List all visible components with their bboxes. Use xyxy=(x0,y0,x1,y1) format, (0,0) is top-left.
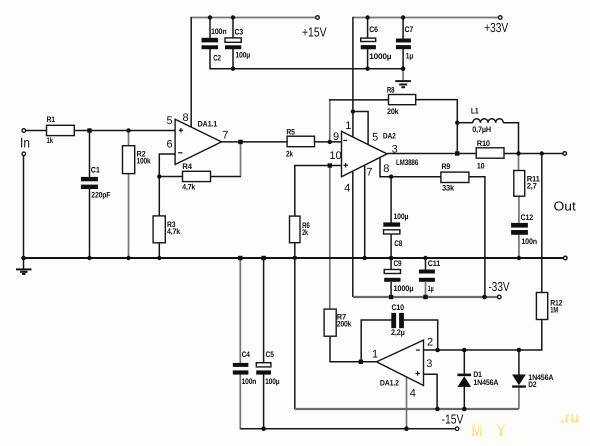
label DA2 xyxy=(383,131,419,167)
wire C10 left branch xyxy=(361,320,391,362)
wire DA2 pins 1-5 link xyxy=(353,112,368,145)
wire R8 left horizontal xyxy=(329,99,388,101)
svg-text:3: 3 xyxy=(426,358,432,370)
wire R12 bottom to diode node xyxy=(519,320,542,351)
node C3 top xyxy=(231,15,235,19)
svg-text:+33V: +33V xyxy=(484,20,508,35)
wire R3 bottom stub xyxy=(158,243,160,258)
svg-text:220pF: 220pF xyxy=(91,190,110,199)
label R11 xyxy=(527,175,541,191)
capacitor C1 xyxy=(81,177,98,189)
svg-text:.ru: .ru xyxy=(560,408,579,426)
wire R2 bottom to ground bus (grey) xyxy=(128,174,130,259)
pin numbers DA1.1 xyxy=(167,112,229,151)
svg-text:C10: C10 xyxy=(392,303,405,312)
wire C5 column upper xyxy=(263,258,265,363)
svg-text:R9: R9 xyxy=(442,162,451,171)
label D1 xyxy=(473,370,498,387)
label R10 xyxy=(477,139,491,171)
svg-text:M: M xyxy=(471,420,482,440)
svg-text:1µ: 1µ xyxy=(428,284,434,293)
capacitor C4 xyxy=(233,363,249,375)
resistor R5 xyxy=(287,136,314,147)
svg-text:C5: C5 xyxy=(266,350,275,359)
node D2 top xyxy=(517,348,522,353)
node -33V R9 xyxy=(482,295,487,300)
svg-text:10: 10 xyxy=(329,150,341,162)
svg-text:2k: 2k xyxy=(302,228,308,237)
wire C3 bottom stub xyxy=(232,49,234,69)
svg-text:C6: C6 xyxy=(369,25,378,34)
wire -33V rail (grey) xyxy=(353,296,497,298)
wire DA2 +input to R7 column (grey) xyxy=(329,166,331,310)
svg-text:8: 8 xyxy=(183,112,189,124)
wire C9 bottom stub xyxy=(390,282,392,297)
svg-text:100n: 100n xyxy=(211,27,227,36)
wire R4 feedback line xyxy=(159,176,241,178)
svg-text:DA1.1: DA1.1 xyxy=(198,120,218,129)
resistor R11 xyxy=(514,171,525,197)
capacitor C11 xyxy=(419,270,435,282)
diode D1 xyxy=(457,374,471,387)
label R3 xyxy=(167,220,181,236)
wire C6 top stub xyxy=(367,18,369,39)
wire -15V bottom line to terminal xyxy=(240,428,454,430)
svg-text:5: 5 xyxy=(167,115,173,127)
label R8 xyxy=(387,86,399,116)
wire DA2 pin8 stub xyxy=(380,158,391,177)
node DA2 supply pins xyxy=(351,109,355,113)
label C5 xyxy=(265,350,280,386)
label DA1.2 xyxy=(380,378,400,387)
wire R3 column xyxy=(158,177,160,216)
wire In lower terminal to ground bus xyxy=(23,156,25,258)
wire L1 branch line xyxy=(457,122,473,124)
svg-text:L1: L1 xyxy=(471,107,479,116)
wire L1 right corner down to output xyxy=(503,123,518,154)
svg-text:R8: R8 xyxy=(387,86,395,95)
svg-text:0,7µH: 0,7µH xyxy=(472,125,491,134)
label R12 xyxy=(550,299,563,315)
svg-text:Y: Y xyxy=(495,420,506,440)
label C9 xyxy=(394,259,414,293)
node C6 bottom xyxy=(365,67,369,71)
ground bus xyxy=(24,257,564,259)
label C6 xyxy=(369,25,392,61)
wire -15V bus (grey) xyxy=(295,408,519,410)
node DA2 pin8 xyxy=(389,175,393,179)
svg-text:LM3886: LM3886 xyxy=(396,158,419,167)
svg-text:8: 8 xyxy=(383,163,389,175)
svg-text:100k: 100k xyxy=(137,157,152,166)
label R4 xyxy=(182,162,195,192)
wire R8 feedback column upper (grey) xyxy=(329,99,331,142)
svg-text:C4: C4 xyxy=(242,350,251,359)
svg-text:7: 7 xyxy=(366,166,372,178)
wire R11 C12 column top xyxy=(518,154,520,172)
capacitor C7 xyxy=(396,39,411,50)
wire DA2 output line to Out terminal xyxy=(387,153,563,155)
svg-text:C8: C8 xyxy=(394,239,403,248)
node -15V bus D1 xyxy=(462,407,467,412)
label +33V xyxy=(484,20,508,35)
wire D2 column lower (grey) xyxy=(518,388,520,409)
terminal Out live xyxy=(563,152,567,156)
svg-text:C3: C3 xyxy=(235,28,244,37)
svg-text:-15V: -15V xyxy=(442,412,464,427)
svg-text:+15V: +15V xyxy=(302,25,327,40)
label R1 xyxy=(47,115,56,145)
label C7 xyxy=(405,25,414,60)
wire C11 bottom stub (grey) xyxy=(425,282,427,297)
label R6 xyxy=(302,221,310,237)
label In xyxy=(20,135,30,151)
op-amp U2 DA2 LM3886 xyxy=(342,131,388,176)
wire C2 top stub xyxy=(209,18,211,41)
label +15V xyxy=(302,25,327,40)
wire R12 column upper xyxy=(541,154,543,293)
node ground R2 xyxy=(126,256,130,260)
svg-text:9: 9 xyxy=(333,131,339,143)
wire C1 column upper xyxy=(89,131,91,178)
svg-text:20k: 20k xyxy=(387,107,399,116)
wire +33V supply column to DA2 pins 1/5 xyxy=(352,17,354,138)
wire C9 top stub xyxy=(390,258,392,270)
wire C11 top stub xyxy=(425,258,427,270)
resistor R2 xyxy=(123,146,135,174)
svg-text:100n: 100n xyxy=(521,237,537,246)
svg-text:100n: 100n xyxy=(242,377,257,386)
op-amp U3 DA1.2 xyxy=(377,340,424,385)
svg-text:1000µ: 1000µ xyxy=(394,284,414,293)
wire +33V rail xyxy=(353,17,498,19)
capacitor C10 (horizontal) xyxy=(391,313,404,328)
node C7 top xyxy=(401,15,405,19)
wire DA1.2 pin4 column (grey) xyxy=(406,377,408,429)
node DA2 pin9 input xyxy=(328,140,332,144)
node bottom DA1.2 pin4 xyxy=(404,426,409,431)
wire C7 top stub xyxy=(402,18,404,39)
svg-text:C2: C2 xyxy=(213,54,221,63)
node ground C8-C9 xyxy=(389,256,394,261)
node ground C5 xyxy=(261,256,265,260)
wire C4 column upper (grey) xyxy=(239,258,241,363)
svg-text:-33V: -33V xyxy=(489,279,510,294)
svg-text:DA2: DA2 xyxy=(383,131,396,140)
label C8 xyxy=(394,212,409,248)
svg-text:1: 1 xyxy=(372,348,378,360)
terminal +15V xyxy=(316,16,320,20)
wire DA1.1 inverting input xyxy=(159,154,175,177)
resistor R12 xyxy=(536,293,547,320)
label R5 xyxy=(286,128,295,159)
node ground C11 xyxy=(423,256,427,260)
wire R9 right to -33V rail xyxy=(469,177,485,297)
svg-text:2k: 2k xyxy=(286,150,294,159)
node DA2 pin10 input xyxy=(328,163,332,167)
resistor R7 xyxy=(324,309,336,336)
wire DA1.1 output feedback drop (grey) xyxy=(240,142,242,176)
svg-text:2: 2 xyxy=(427,337,433,349)
label Out xyxy=(554,198,577,213)
svg-text:C11: C11 xyxy=(428,259,441,268)
node ground R6 crossing xyxy=(293,256,297,259)
node output R11 xyxy=(516,151,520,155)
svg-text:1M: 1M xyxy=(550,306,558,315)
wire C12 bottom to ground bus xyxy=(518,235,520,259)
node -33V C9 xyxy=(389,295,393,299)
svg-text:100µ: 100µ xyxy=(394,212,409,221)
ground (input) xyxy=(16,258,32,274)
svg-text:C1: C1 xyxy=(91,165,101,174)
wire C8 bottom to ground bus xyxy=(390,234,392,258)
node C3 bottom xyxy=(231,67,235,71)
label C10 xyxy=(391,303,405,337)
node C7 bottom xyxy=(401,66,406,71)
op-amp U1 DA1.1 xyxy=(175,119,221,164)
wire D1 column upper xyxy=(463,350,465,374)
wire R6 bottom through ground bus to -15V bus xyxy=(294,243,296,409)
terminal +33V xyxy=(498,16,502,20)
node R4 left xyxy=(157,174,161,178)
label C4 xyxy=(242,350,257,386)
node input R2 xyxy=(126,128,130,132)
wire DA2 non-inverting input line xyxy=(295,166,342,217)
wire DA2 pin4 column to -33V rail xyxy=(352,171,354,297)
svg-text:C7: C7 xyxy=(405,25,414,34)
wire C4 column lower (grey) xyxy=(240,374,241,429)
watermark .ru xyxy=(560,408,579,426)
svg-text:C9: C9 xyxy=(394,259,403,268)
wire DA1.2 pin3 to -15V bus xyxy=(424,374,438,409)
capacitor C5 (polarized) xyxy=(256,363,271,375)
inductor L1 xyxy=(473,119,503,123)
resistor R6 xyxy=(290,216,301,243)
svg-text:7: 7 xyxy=(222,129,228,141)
node DA1.1 output xyxy=(238,140,242,144)
wire C6 bottom stub xyxy=(367,48,369,68)
wire C3 top stub xyxy=(232,18,234,40)
wire C10 right branch xyxy=(404,320,438,350)
svg-text:1000µ: 1000µ xyxy=(369,52,392,61)
wire DA1.1 pin8 supply column xyxy=(190,17,192,128)
svg-text:4,7k: 4,7k xyxy=(167,227,181,236)
wire D1 column lower xyxy=(463,387,465,409)
svg-text:1N456A: 1N456A xyxy=(473,378,498,387)
wire D2 column upper xyxy=(518,350,520,375)
node DA1.2 output xyxy=(359,360,363,364)
capacitor C12 xyxy=(511,223,528,235)
wire DA1.1 output to R5 to DA2 pin 9 xyxy=(222,141,342,143)
node D1 top xyxy=(462,348,467,353)
resistor R9 xyxy=(441,172,469,182)
label D2 xyxy=(528,373,553,389)
ground (supply caps) xyxy=(395,69,411,88)
svg-text:1: 1 xyxy=(345,120,351,132)
svg-text:D2: D2 xyxy=(528,380,537,389)
svg-text:Out: Out xyxy=(554,198,577,213)
svg-text:2,7: 2,7 xyxy=(527,182,538,191)
label C12 xyxy=(521,213,538,246)
node ground C12 xyxy=(517,256,521,260)
svg-text:R5: R5 xyxy=(286,128,295,137)
resistor R10 xyxy=(476,148,504,158)
label C1 xyxy=(91,165,111,199)
capacitor C2 xyxy=(202,38,219,49)
node R8-L1 junction xyxy=(455,121,459,125)
node output left xyxy=(455,151,459,155)
node ground DA2 pin7 xyxy=(363,256,367,260)
wire +15V rail xyxy=(191,17,316,19)
wire C8 top stub xyxy=(390,177,392,223)
wire supply-cap ground rail xyxy=(210,48,403,69)
node DA1.2 pin2 xyxy=(435,348,440,353)
label C2 xyxy=(211,27,227,63)
label R9 xyxy=(442,162,455,193)
capacitor C9 (polarized) xyxy=(384,270,400,282)
svg-text:2,2µ: 2,2µ xyxy=(391,328,405,337)
node -33V C11 xyxy=(423,295,427,299)
capacitor C8 (polarized) xyxy=(383,222,400,234)
label C3 xyxy=(235,28,251,60)
svg-text:4: 4 xyxy=(344,182,350,194)
svg-text:1µ: 1µ xyxy=(406,52,414,61)
terminal Out return xyxy=(564,256,568,260)
resistor R8 xyxy=(389,95,416,105)
svg-text:3: 3 xyxy=(392,143,398,155)
node ground C1 xyxy=(87,256,91,260)
svg-text:100µ: 100µ xyxy=(235,51,250,60)
diode D2 xyxy=(512,375,526,388)
node ground R3 xyxy=(157,256,161,260)
capacitor C3 (polarized) xyxy=(225,38,241,49)
label R2 xyxy=(137,150,152,166)
resistor R4 xyxy=(183,171,211,181)
terminal In lower xyxy=(22,152,26,156)
wire C5 column lower xyxy=(263,374,265,429)
node ground C4 xyxy=(238,256,242,260)
label -15V xyxy=(442,412,464,427)
node input R1-C1 xyxy=(87,128,91,132)
node C2 top xyxy=(208,15,212,19)
label DA1.1 xyxy=(198,120,218,129)
wire R7 bottom to DA1.2 output xyxy=(330,336,377,362)
pin numbers DA2 xyxy=(329,120,397,194)
svg-text:DA1.2: DA1.2 xyxy=(380,378,400,387)
terminal In upper xyxy=(22,129,26,133)
node C6 top xyxy=(365,15,369,19)
svg-text:6: 6 xyxy=(167,139,173,151)
svg-text:R1: R1 xyxy=(47,115,56,124)
pin numbers DA1.2 xyxy=(372,337,433,400)
wire R8 right to output node xyxy=(416,100,458,154)
wire R2 top stub xyxy=(128,131,130,146)
label R7 xyxy=(337,313,352,329)
wire C1 column lower xyxy=(89,189,91,258)
terminal -33V xyxy=(498,295,502,299)
svg-text:1k: 1k xyxy=(47,136,54,145)
svg-text:4: 4 xyxy=(410,387,416,399)
capacitor C6 (polarized) xyxy=(361,38,376,49)
resistor R3 xyxy=(153,216,165,243)
label -33V xyxy=(489,279,510,294)
svg-text:200k: 200k xyxy=(337,320,352,329)
node output R12 xyxy=(540,151,544,155)
svg-text:R10: R10 xyxy=(477,139,491,148)
svg-text:C12: C12 xyxy=(521,213,534,222)
node ground In xyxy=(21,256,26,261)
wire R11 to C12 link xyxy=(518,196,520,223)
label L1 xyxy=(471,107,491,134)
svg-text:4,7k: 4,7k xyxy=(182,183,195,192)
svg-text:In: In xyxy=(20,135,30,151)
svg-text:10: 10 xyxy=(477,162,485,171)
node bottom C5 xyxy=(261,426,266,431)
label C11 xyxy=(428,259,441,293)
wire DA2 pin7 column to ground bus xyxy=(364,165,366,258)
wire C7 bottom stub xyxy=(402,48,404,69)
svg-text:5: 5 xyxy=(372,131,378,143)
wire DA1.2 pin2 line to diodes xyxy=(424,349,519,351)
terminal -15V xyxy=(455,427,459,431)
svg-text:100µ: 100µ xyxy=(265,377,280,386)
svg-text:R4: R4 xyxy=(182,162,192,171)
resistor R1 xyxy=(47,125,75,135)
wire input line xyxy=(26,130,175,132)
watermark MY xyxy=(471,420,506,440)
node -15V bus pin3 xyxy=(435,407,440,412)
svg-text:33k: 33k xyxy=(442,184,455,193)
wire pin8 node to R9 xyxy=(391,176,441,178)
